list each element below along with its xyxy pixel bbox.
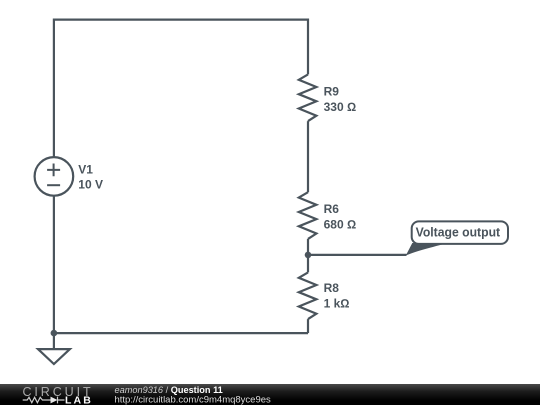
logo diode symbol [51,397,58,404]
svg-text:R8: R8 [324,281,340,295]
wire output node horizontal [308,254,407,256]
logo diode bar and wire [58,397,65,404]
callout tail [406,243,449,256]
wire bottom horizontal [54,332,308,334]
svg-text:10 V: 10 V [78,178,103,192]
voltage source V1 circle [35,157,74,196]
junction node bottom left [51,330,58,337]
svg-text:V1: V1 [78,162,93,176]
resistor R8 zigzag [299,272,317,319]
wire R9 to R6 [307,121,309,192]
wire R8 to bottom [307,319,309,333]
svg-text:eamon9316 / Question 11: eamon9316 / Question 11 [115,385,223,395]
ground triangle [38,349,70,364]
wire left vertical (top to V1) [53,19,55,158]
resistor R9 zigzag [299,74,317,121]
logo waveform resistor zigzag [23,397,51,402]
callout box Voltage output [412,221,508,244]
svg-text:1 kΩ: 1 kΩ [324,296,350,310]
svg-text:LAB: LAB [65,394,93,405]
svg-text:http://circuitlab.com/c9m4mq8y: http://circuitlab.com/c9m4mq8yce9es [115,395,272,405]
V1 minus sign [47,184,60,186]
svg-text:R9: R9 [324,85,340,99]
svg-text:330 Ω: 330 Ω [324,100,357,114]
wire top horizontal [54,19,308,21]
wire right vertical (top to R9) [307,19,309,75]
wire R6 to output node [307,239,309,255]
footer bar [0,384,540,405]
wire left vertical (V1 to bottom) [53,196,55,334]
svg-text:R6: R6 [324,202,340,216]
wire output node to R8 [307,255,309,273]
ground stub wire [53,333,55,349]
V1 plus sign [47,164,60,177]
svg-text:Voltage output: Voltage output [416,224,501,239]
resistor R6 zigzag [299,192,317,239]
svg-text:680 Ω: 680 Ω [324,218,357,232]
junction node output [305,252,312,259]
